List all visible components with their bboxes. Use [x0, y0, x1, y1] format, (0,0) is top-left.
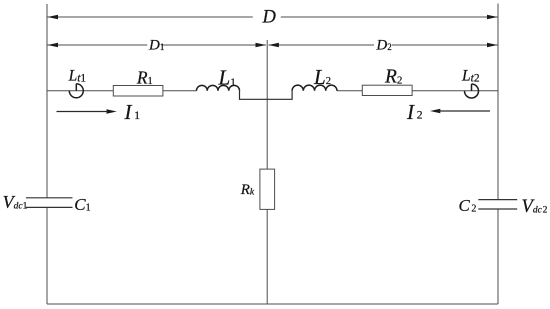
- svg-text:D: D: [262, 8, 277, 28]
